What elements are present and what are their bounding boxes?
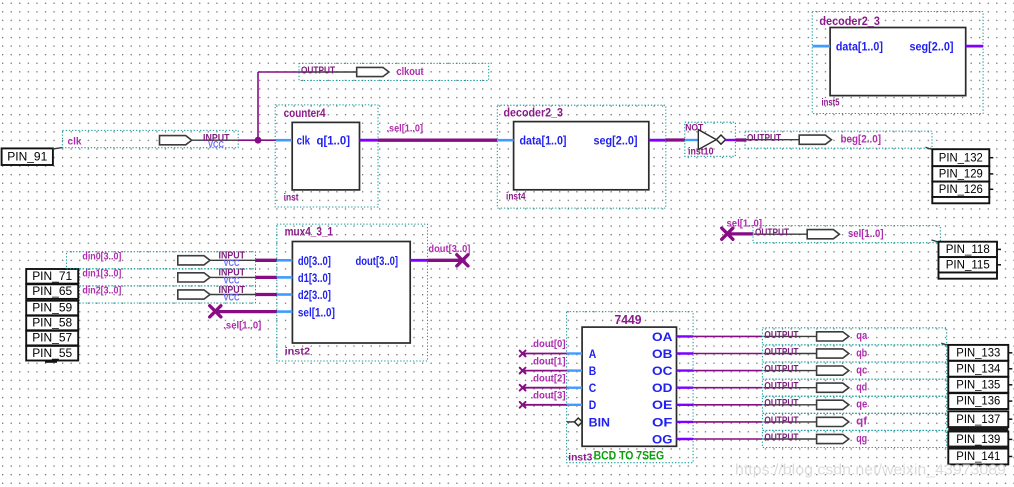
output pin qa (762, 328, 946, 345)
wire bus sel[1..0] counter to decoder (378, 139, 498, 142)
svg-text:inst2: inst2 (285, 346, 311, 357)
port stub C (input) (567, 387, 582, 389)
svg-text:data[1..0]: data[1..0] (520, 136, 567, 148)
svg-text:C: C (589, 383, 597, 395)
wire clkout branch vertical (257, 72, 259, 140)
svg-text:inst5: inst5 (822, 98, 840, 109)
svg-text:clkout: clkout (397, 66, 424, 78)
pin PIN_139 (948, 432, 1008, 448)
svg-text:.dout[3]: .dout[3] (531, 391, 566, 402)
block counter4 inst (275, 105, 378, 207)
svg-text:qg: qg (856, 433, 867, 445)
port stub OE (output) (677, 404, 694, 406)
svg-text:PIN_126: PIN_126 (939, 182, 983, 196)
svg-text:OUTPUT: OUTPUT (764, 415, 798, 426)
svg-text:OUTPUT: OUTPUT (764, 330, 798, 341)
wire qa from 7449 (693, 335, 762, 337)
svg-text:inst4: inst4 (506, 191, 526, 202)
NOT bubble (716, 135, 725, 144)
svg-text:OD: OD (652, 383, 672, 395)
pin PIN_133 (948, 345, 1008, 361)
svg-text:OE: OE (652, 400, 673, 412)
wire PIN_133 callout link (941, 343, 948, 345)
svg-text:PIN_139: PIN_139 (956, 432, 1000, 446)
svg-text:PIN_135: PIN_135 (956, 377, 1000, 391)
tick below PIN_55 (45, 361, 57, 363)
pin PIN_129 (932, 166, 989, 181)
output pin beg[2..0] (745, 131, 932, 148)
input pin clk (INPUT/VCC primitive) (62, 130, 238, 150)
svg-text:OUTPUT: OUTPUT (764, 432, 798, 443)
port stub OG (output) (677, 438, 694, 440)
svg-text:.dout[1]: .dout[1] (531, 356, 566, 367)
svg-text:PIN_134: PIN_134 (956, 361, 1000, 375)
output pin qe (762, 396, 946, 413)
pin PIN_132 (932, 149, 989, 166)
svg-text:OUTPUT: OUTPUT (764, 398, 798, 409)
svg-text:qc: qc (856, 364, 867, 376)
output pin qb (762, 345, 946, 362)
port stub A (input) (567, 352, 582, 354)
svg-text:VCC: VCC (208, 139, 224, 150)
wire bus X to mux sel (215, 310, 277, 313)
wire bus din1[3..0] to mux (256, 276, 278, 279)
svg-text:PIN_136: PIN_136 (956, 394, 1000, 408)
wire qc from 7449 (693, 370, 762, 372)
svg-text:din2[3..0]: din2[3..0] (82, 286, 121, 297)
dangling X sel[1..0] (722, 228, 733, 239)
output pin clkout (299, 63, 489, 80)
svg-text:dout[3..0]: dout[3..0] (356, 256, 399, 268)
port stub B (input) (567, 369, 582, 371)
port stub d2[3..0] (input) (277, 293, 292, 296)
svg-text:A: A (589, 349, 597, 361)
svg-text:qb: qb (856, 347, 867, 359)
svg-text:.dout[2]: .dout[2] (531, 373, 566, 384)
pin box (empty) below PIN_126 (932, 197, 989, 203)
output pin qc (762, 362, 946, 379)
svg-text:OUTPUT: OUTPUT (755, 228, 789, 239)
port stub dout[3..0] (output) (410, 259, 427, 262)
svg-text:PIN_58: PIN_58 (32, 316, 72, 330)
pin PIN_136 (948, 393, 1008, 409)
svg-text:OC: OC (652, 366, 672, 378)
wire bus NOT to beg output (735, 138, 746, 141)
svg-text:PIN_137: PIN_137 (956, 412, 1000, 426)
pin PIN_118 (939, 242, 998, 257)
svg-text:inst3: inst3 (568, 452, 592, 463)
wire qg from 7449 (693, 438, 762, 440)
svg-text:din0[3..0]: din0[3..0] (82, 251, 121, 262)
block decoder2_3 inst5 (812, 12, 983, 114)
svg-text:B: B (589, 366, 597, 378)
svg-text:OA: OA (652, 332, 672, 344)
block mux4_3_1 inst2 (277, 224, 428, 361)
pin PIN_59 (26, 301, 78, 316)
svg-text:OUTPUT: OUTPUT (301, 65, 335, 76)
block 7449 inst3 (567, 312, 694, 464)
pin PIN_115 (939, 257, 998, 272)
svg-text:d1[3..0]: d1[3..0] (298, 273, 331, 285)
svg-text:sel[1..0]: sel[1..0] (848, 228, 884, 240)
port stub clk (input) (276, 139, 292, 142)
BIN unconnected diamond (567, 421, 575, 423)
svg-text:PIN_132: PIN_132 (939, 150, 983, 164)
pin PIN_91 (2, 148, 53, 165)
svg-text:PIN_57: PIN_57 (32, 331, 72, 345)
svg-text:PIN_133: PIN_133 (956, 345, 1000, 359)
svg-text:d0[3..0]: d0[3..0] (298, 256, 331, 268)
output pin qd (762, 379, 946, 396)
dangling X mux select (210, 306, 221, 317)
svg-text:beg[2..0]: beg[2..0] (841, 134, 882, 146)
svg-text:counter4: counter4 (284, 108, 327, 120)
pin PIN_141 (948, 449, 1008, 465)
port stub OF (output) (677, 421, 694, 423)
svg-text:D: D (589, 400, 597, 412)
output pin sel[1..0] (753, 226, 940, 243)
svg-text:BCD TO 7SEG: BCD TO 7SEG (594, 448, 665, 462)
wire qd from 7449 (693, 387, 762, 389)
block decoder2_3 inst4 (497, 105, 666, 208)
port stub data[1..0] (input) (813, 45, 831, 48)
svg-text:PIN_59: PIN_59 (32, 301, 72, 315)
pin PIN_55 (26, 346, 78, 361)
wire bus din0[3..0] to mux (256, 259, 278, 262)
port stub sel[1..0] (input) (277, 310, 292, 313)
port stub OD (output) (677, 387, 694, 389)
output pin qf (762, 413, 946, 430)
svg-text:BIN: BIN (589, 417, 610, 429)
port stub d0[3..0] (input) (277, 259, 292, 262)
svg-text:seg[2..0]: seg[2..0] (910, 42, 954, 54)
svg-text:.sel[1..0]: .sel[1..0] (223, 320, 261, 332)
dangling wire .dout[3] to 7449 D (523, 404, 567, 406)
input pin din2[3..0] (INPUT/VCC primitive) (80, 285, 256, 304)
svg-text:qf: qf (856, 416, 867, 428)
svg-text:qe: qe (856, 399, 867, 411)
svg-text:data[1..0]: data[1..0] (836, 42, 883, 54)
junction clk node (255, 137, 262, 144)
wire qf from 7449 (693, 421, 762, 423)
dangling X dout[3..0] (457, 255, 468, 266)
wire bus dout[3..0] from mux (428, 259, 463, 262)
port stub d1[3..0] (input) (277, 276, 292, 279)
port stub OB (output) (677, 352, 694, 354)
dangling wire .dout[0] to 7449 A (523, 353, 567, 355)
svg-text:PIN_55: PIN_55 (32, 346, 72, 360)
svg-text:mux4_3_1: mux4_3_1 (285, 226, 334, 238)
svg-text:decoder2_3: decoder2_3 (819, 16, 880, 28)
svg-text:PIN_129: PIN_129 (939, 167, 983, 181)
pin PIN_71 (26, 269, 78, 284)
dangling wire .dout[2] to 7449 C (523, 387, 567, 389)
wire PIN_132 callout link (926, 147, 933, 149)
svg-text:q[1..0]: q[1..0] (317, 136, 351, 148)
port stub seg[2..0] (output) (649, 139, 666, 142)
svg-text:PIN_65: PIN_65 (32, 284, 72, 298)
svg-text:OUTPUT: OUTPUT (764, 364, 798, 375)
wire qb from 7449 (693, 353, 762, 355)
port stub OC (output) (677, 369, 694, 371)
svg-text:seg[2..0]: seg[2..0] (594, 136, 638, 148)
svg-text:inst10: inst10 (688, 146, 714, 157)
pin PIN_57 (26, 331, 78, 346)
svg-text:inst: inst (284, 193, 300, 204)
svg-text:PIN_118: PIN_118 (946, 242, 990, 256)
pin box (empty) below PIN_115 (939, 273, 998, 279)
dangling wire .dout[1] to 7449 B (523, 370, 567, 372)
wire bus din2[3..0] to mux (256, 293, 278, 296)
wire bus X to sel output (727, 232, 753, 235)
svg-text:.sel[1..0]: .sel[1..0] (387, 123, 424, 135)
pin PIN_137 (948, 411, 1008, 427)
wire clkout branch horizontal (258, 71, 300, 73)
black separator band between PIN_139 and PIN_141 (948, 446, 1008, 449)
wire PIN_118 callout link (932, 240, 939, 242)
svg-text:OUTPUT: OUTPUT (764, 381, 798, 392)
svg-text:OG: OG (652, 434, 672, 446)
wire PIN_91 callout link (53, 148, 63, 149)
svg-text:VCC: VCC (224, 292, 240, 303)
pin PIN_134 (948, 361, 1008, 377)
svg-text:d2[3..0]: d2[3..0] (298, 290, 331, 302)
port stub q[1..0] (output) (360, 139, 379, 142)
wire clk to counter4 (238, 139, 276, 141)
svg-text:decoder2_3: decoder2_3 (504, 108, 564, 120)
black separator band between PIN_137 and PIN_139 (948, 427, 1008, 431)
input pin din0[3..0] (INPUT/VCC primitive) (67, 251, 256, 270)
wire qe from 7449 (693, 404, 762, 406)
svg-text:.dout[0]: .dout[0] (531, 339, 566, 350)
svg-text:clk: clk (68, 135, 82, 147)
port stub D (input) (567, 404, 582, 406)
svg-text:PIN_71: PIN_71 (32, 269, 72, 283)
svg-text:clk: clk (297, 136, 311, 148)
svg-text:OUTPUT: OUTPUT (764, 347, 798, 358)
port stub seg[2..0] (output) (966, 45, 983, 48)
svg-text:PIN_91: PIN_91 (7, 149, 47, 163)
svg-text:OF: OF (652, 417, 672, 429)
svg-text:7449: 7449 (615, 312, 642, 327)
svg-text:qd: qd (856, 382, 867, 394)
port stub OA (output) (677, 335, 694, 337)
svg-text:sel[1..0]: sel[1..0] (298, 307, 335, 319)
pin PIN_135 (948, 377, 1008, 393)
wire bus seg[2..0] decoder to NOT (666, 138, 685, 141)
input pin din1[3..0] (INPUT/VCC primitive) (80, 268, 256, 287)
svg-text:https://blog.csdn.net/weixin_4: https://blog.csdn.net/weixin_43973089 (735, 462, 1006, 479)
svg-text:OB: OB (652, 349, 672, 361)
port stub NOT output (726, 139, 736, 141)
port stub NOT input (685, 139, 698, 141)
svg-text:OUTPUT: OUTPUT (747, 133, 781, 144)
pin PIN_126 (932, 182, 989, 197)
svg-text:dout[3..0]: dout[3..0] (428, 243, 470, 255)
pin PIN_58 (26, 316, 78, 331)
svg-text:din1[3..0]: din1[3..0] (82, 268, 121, 279)
port stub data[1..0] (input) (498, 139, 514, 142)
svg-text:PIN_115: PIN_115 (946, 257, 990, 271)
pin PIN_65 (26, 284, 78, 299)
svg-text:qa: qa (856, 330, 868, 342)
output pin qg (762, 430, 946, 447)
not gate inst10 (685, 122, 736, 157)
